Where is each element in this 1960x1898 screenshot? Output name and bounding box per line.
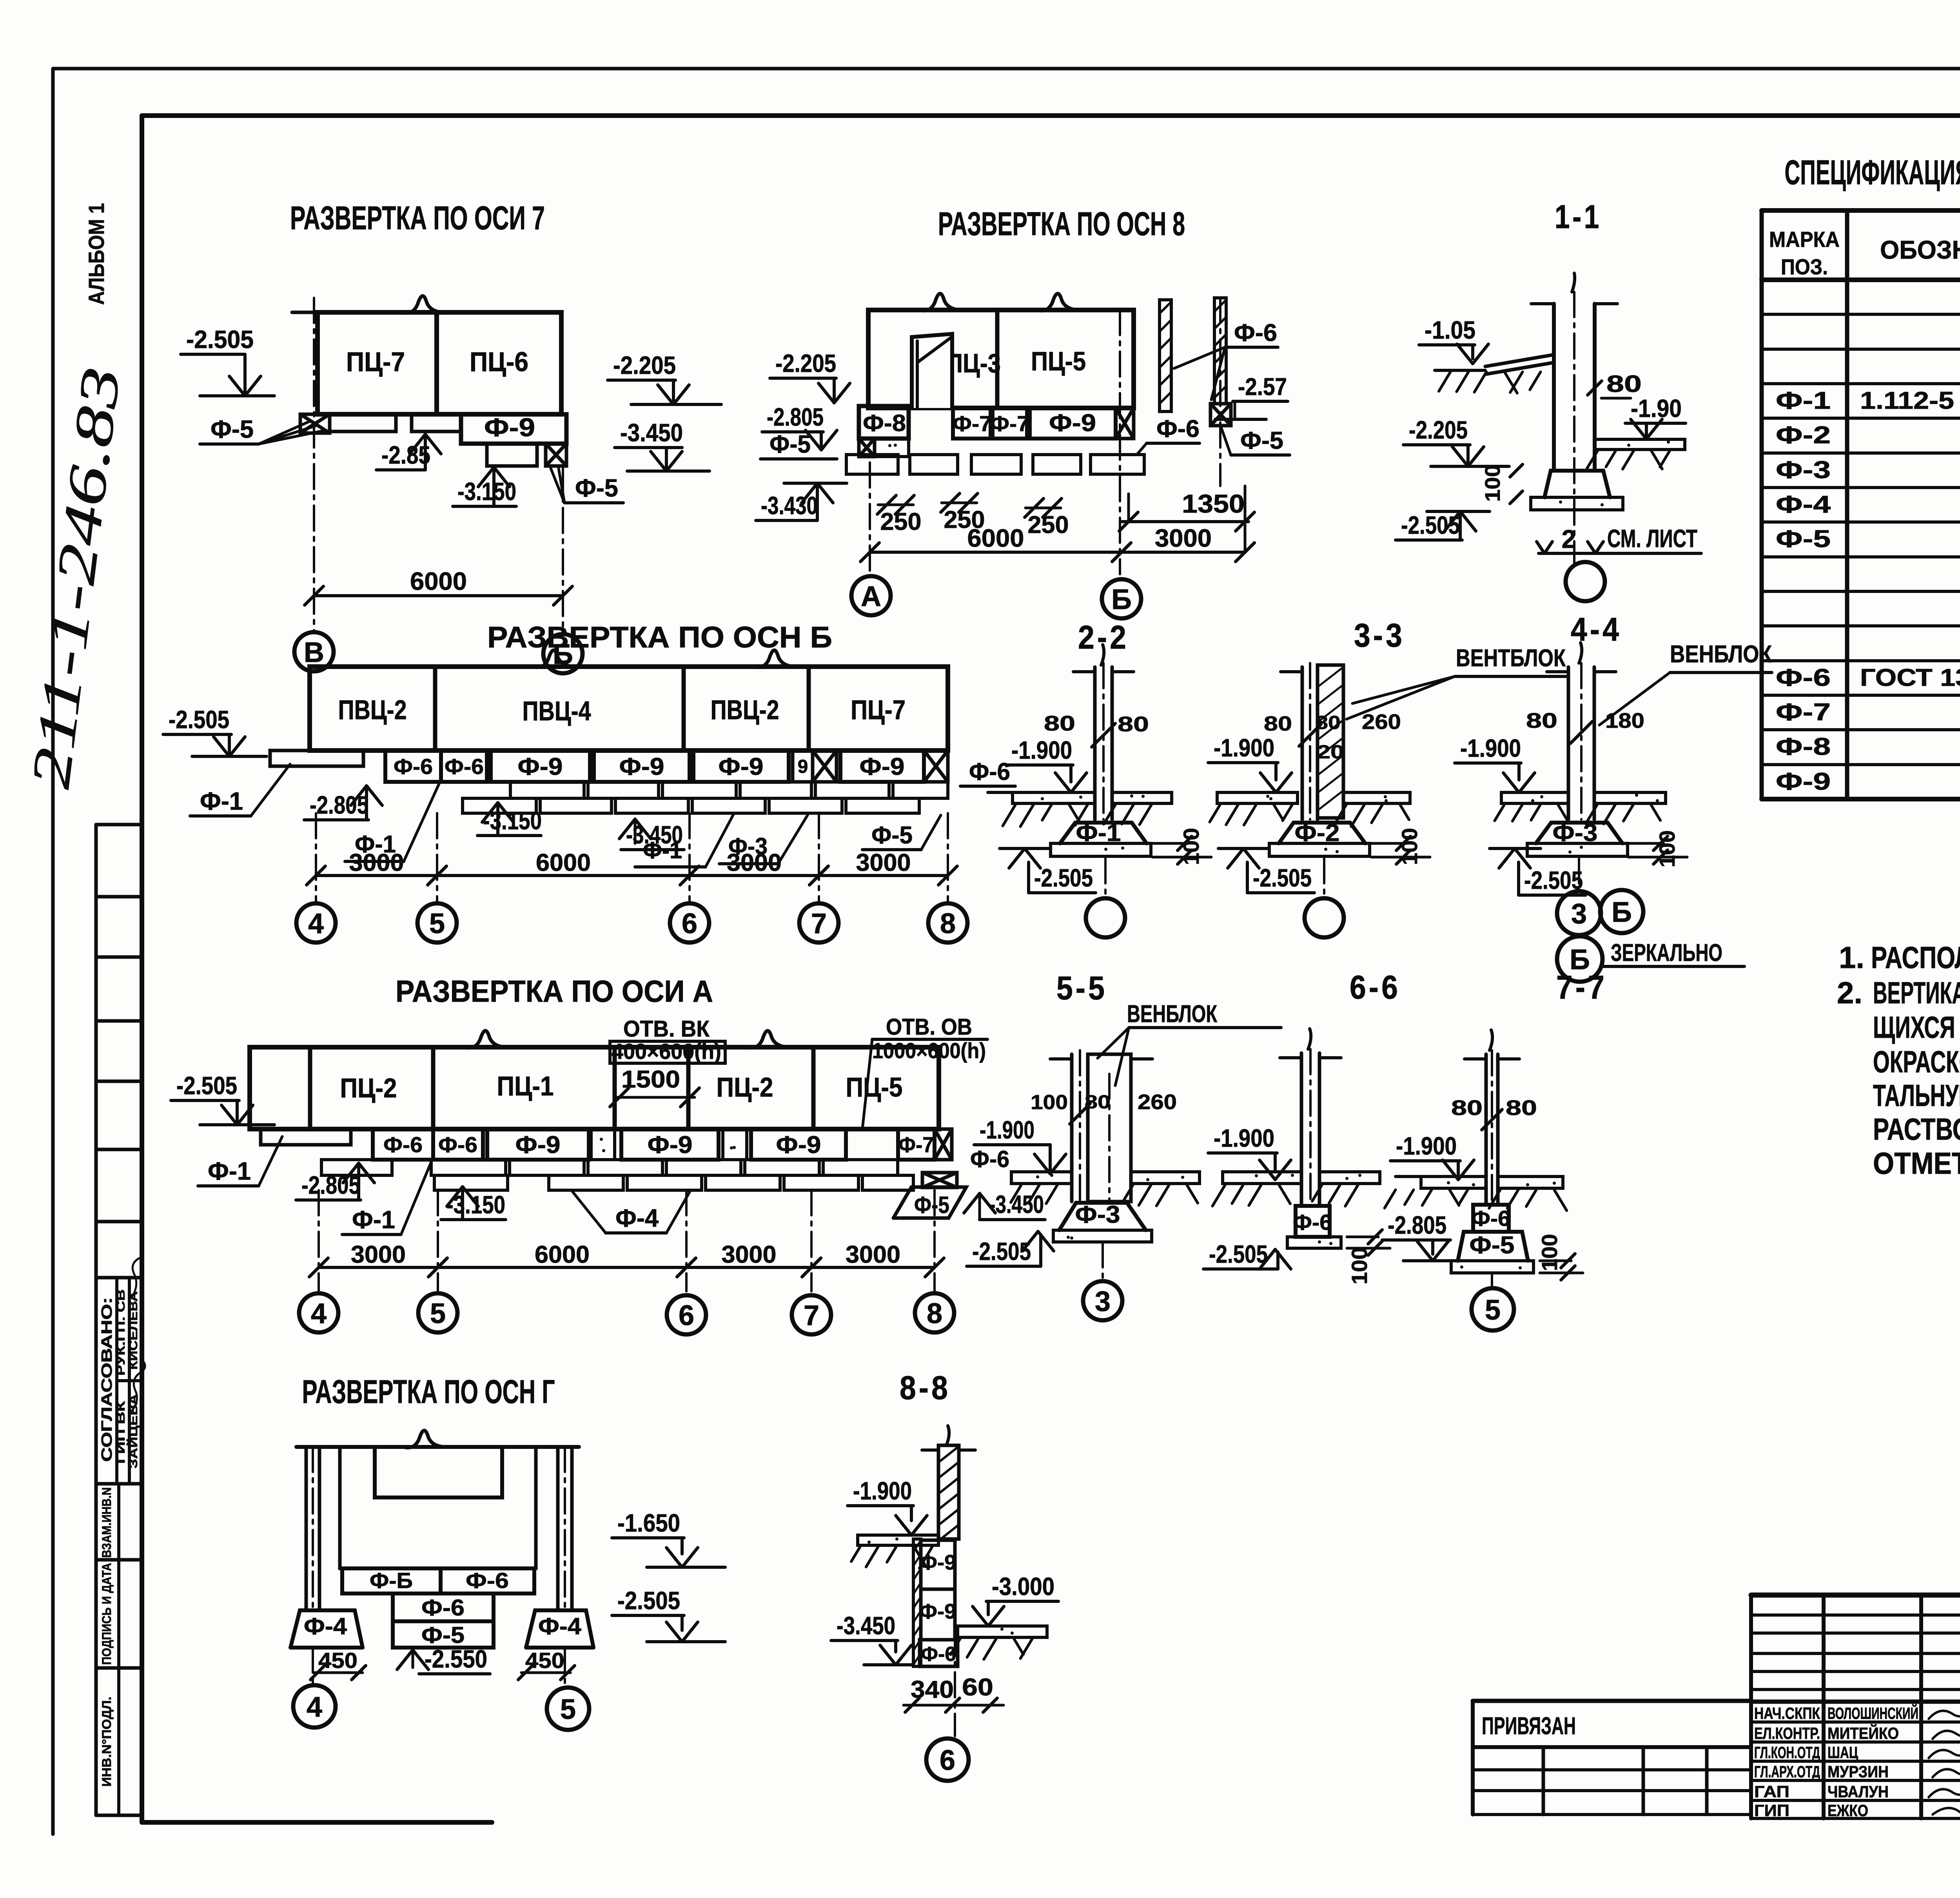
svg-text:6: 6 [940, 1745, 955, 1776]
svg-text:6: 6 [679, 1300, 694, 1331]
svg-text:РАЗВЕРТКА ПО ОСИ А: РАЗВЕРТКА ПО ОСИ А [396, 974, 713, 1008]
D2 X-box under ф-8 [859, 439, 875, 457]
svg-text:ВЕНТБЛОК: ВЕНТБЛОК [1456, 645, 1566, 672]
svg-text:ОТВ. ВК: ОТВ. ВК [623, 1016, 710, 1042]
svg-text:Ф-9: Ф-9 [919, 1551, 956, 1574]
svg-text:3000: 3000 [1155, 524, 1212, 552]
S22 footing [1060, 823, 1147, 843]
svg-text:20: 20 [1317, 742, 1344, 763]
D1 lower plate [487, 444, 537, 466]
svg-text:Ф-9: Ф-9 [1776, 768, 1831, 795]
svg-text:-2.85: -2.85 [381, 441, 430, 469]
svg-text:1000×600(h): 1000×600(h) [872, 1038, 986, 1063]
svg-text:Ф-4: Ф-4 [538, 1613, 582, 1639]
S88 stack hatched edge [913, 1539, 921, 1666]
svg-text:РАСПОЛОЖЕНИЕ СЕЧЕНИЙ СМ. ЛИС: РАСПОЛОЖЕНИЕ СЕЧЕНИЙ СМ. ЛИСТ 5 [1871, 940, 1960, 975]
svg-text:ПЦ-2: ПЦ-2 [717, 1072, 773, 1102]
svg-text:80: 80 [1606, 371, 1642, 397]
svg-text:3000: 3000 [351, 1241, 406, 1268]
S55 axis circle 3 [1102, 1242, 1104, 1281]
S77 wall [1485, 1054, 1488, 1205]
svg-text:7: 7 [811, 908, 827, 939]
svg-text:Ф-4: Ф-4 [304, 1613, 347, 1639]
title block signatures [1929, 1704, 1960, 1719]
S77 slab [1451, 1261, 1534, 1273]
signature squiggle [132, 1258, 140, 1297]
S77 ground band [1421, 1177, 1486, 1188]
svg-text:РАЗВЕРТКА ПО ОСН Б: РАЗВЕРТКА ПО ОСН Б [487, 621, 832, 654]
svg-text:Ф-9: Ф-9 [518, 753, 563, 780]
svg-text:Ф-9: Ф-9 [860, 753, 905, 780]
svg-text:80: 80 [1264, 712, 1292, 735]
svg-text:250: 250 [880, 508, 922, 535]
svg-text:Ф-6: Ф-6 [394, 754, 433, 779]
S77 block ф-5 [1458, 1232, 1528, 1261]
svg-text:6000: 6000 [536, 849, 591, 876]
svg-text:ПОЗ.: ПОЗ. [1781, 254, 1828, 279]
D4 ф-5 wedge block [893, 1187, 966, 1218]
S11 ground right [1595, 439, 1685, 450]
D4 blocks row [250, 1047, 939, 1129]
svg-text:Ф-3: Ф-3 [1776, 457, 1831, 484]
svg-text:Ф-6: Ф-6 [1471, 1206, 1510, 1231]
svg-text:ОТМЕТКАХ -2.205, -3.150: ОТМЕТКАХ -2.205, -3.150 [1873, 1146, 1960, 1180]
svg-text:60: 60 [962, 1674, 993, 1701]
svg-text:Ф-8: Ф-8 [1776, 733, 1831, 760]
svg-text:Ф-6: Ф-6 [1293, 1210, 1332, 1235]
svg-text:8: 8 [927, 1298, 942, 1329]
title block: project name cell [1751, 1700, 1960, 1704]
svg-text:-2.57: -2.57 [1238, 373, 1287, 401]
S88 block ф-6 [920, 1640, 958, 1666]
svg-text:80: 80 [1316, 712, 1341, 733]
S88 block ф-9 (1) [921, 1540, 955, 1589]
D1 strip plate 2 [412, 414, 461, 431]
S44 axis circles 3 Б Б [1578, 858, 1580, 892]
svg-text:7-7: 7-7 [1556, 969, 1607, 1006]
D4 lower X-box [922, 1173, 957, 1187]
svg-text:ВЕНБЛОК: ВЕНБЛОК [1670, 641, 1772, 668]
svg-text:ЗАЙЦЕВА: ЗАЙЦЕВА [127, 1394, 140, 1468]
DГ left wall [305, 1447, 308, 1610]
svg-text:Ф-5: Ф-5 [421, 1622, 465, 1648]
svg-text:Ф-9: Ф-9 [919, 1600, 956, 1623]
svg-text:РАЗВЕРТКА ПО ОСИ 7: РАЗВЕРТКА ПО ОСИ 7 [290, 199, 545, 236]
svg-text:ПЦ-2: ПЦ-2 [340, 1073, 397, 1103]
D1 axis circle В [294, 632, 334, 671]
svg-text:ВЗАМ.ИНВ.N: ВЗАМ.ИНВ.N [100, 1487, 114, 1558]
D1 block пц-6 [437, 312, 561, 414]
svg-text:1.: 1. [1839, 940, 1864, 975]
svg-text:ПЦ-6: ПЦ-6 [470, 346, 528, 377]
svg-text:6: 6 [682, 908, 697, 939]
svg-text:ПЦ-1: ПЦ-1 [497, 1071, 554, 1101]
svg-text:Ф-9: Ф-9 [1049, 410, 1096, 437]
D4 strip blocks [373, 1129, 433, 1160]
svg-text:-1.900: -1.900 [853, 1477, 912, 1505]
svg-text:ШАЦ: ШАЦ [1828, 1743, 1858, 1762]
svg-text:-2.505: -2.505 [1209, 1240, 1268, 1268]
D2 blocks пц-3 пц-5 outer [868, 310, 1134, 408]
svg-text:ИНВ.N°ПОДЛ.: ИНВ.N°ПОДЛ. [100, 1697, 114, 1787]
svg-text:-2.550: -2.550 [425, 1645, 487, 1673]
svg-text:ТАЛЬНУЮ ГИДРОИЗОЛЯЦИЮ ВЫПОЛН: ТАЛЬНУЮ ГИДРОИЗОЛЯЦИЮ ВЫПОЛНЯТЬ ЦЕМЕНТНЫ… [1873, 1078, 1960, 1113]
svg-text:РУК.ГП. СВ: РУК.ГП. СВ [114, 1289, 127, 1376]
svg-text:2: 2 [1562, 524, 1576, 553]
svg-text:-2.805: -2.805 [301, 1171, 360, 1199]
svg-text:Ф-6: Ф-6 [445, 754, 484, 779]
svg-text:ПЦ-5: ПЦ-5 [846, 1072, 903, 1102]
S55 ground band [1011, 1172, 1072, 1184]
svg-text:6000: 6000 [967, 524, 1024, 552]
D2 X-box right [1116, 408, 1134, 439]
svg-text:5: 5 [560, 1694, 576, 1725]
svg-text:-2.205: -2.205 [1409, 416, 1468, 444]
svg-text:Ф-5: Ф-5 [211, 415, 254, 443]
svg-text:-2.505: -2.505 [1034, 864, 1093, 892]
DГ left footing ф-4 [290, 1610, 363, 1648]
svg-text:Ф-4: Ф-4 [1776, 491, 1831, 518]
svg-text:НАЧ.СКПК: НАЧ.СКПК [1754, 1704, 1820, 1722]
svg-text:Ф-9: Ф-9 [719, 753, 764, 780]
S44 footing [1536, 823, 1622, 843]
svg-text:3000: 3000 [349, 849, 404, 876]
DГ axis circles [312, 1648, 314, 1685]
svg-text:ПВЦ-2: ПВЦ-2 [711, 694, 779, 725]
D2 plates row [846, 455, 898, 474]
svg-text:4-4: 4-4 [1571, 611, 1622, 648]
svg-text:КИСЕЛЕВА: КИСЕЛЕВА [127, 1291, 140, 1370]
svg-text:ГИП ВК: ГИП ВК [114, 1401, 127, 1464]
svg-text:3: 3 [1095, 1286, 1111, 1317]
svg-text:Б: Б [1111, 584, 1132, 615]
svg-text:Ф-7: Ф-7 [953, 411, 992, 436]
svg-text:Ф-6: Ф-6 [1234, 319, 1277, 346]
svg-text:3-3: 3-3 [1354, 617, 1405, 654]
svg-text:3000: 3000 [846, 1241, 900, 1268]
svg-text:ВЕРТИКАЛЬНУЮ ГИДРОИЗОЛЯЦИЮ В: ВЕРТИКАЛЬНУЮ ГИДРОИЗОЛЯЦИЮ ВСЕХ СОПРИКАС… [1873, 975, 1960, 1010]
svg-text:100: 100 [1537, 1234, 1562, 1271]
svg-text:ЕЖКО: ЕЖКО [1828, 1801, 1868, 1820]
svg-text:РАЗВЕРТКА ПО ОСН Г: РАЗВЕРТКА ПО ОСН Г [302, 1373, 555, 1410]
D2 axis line А [869, 462, 871, 572]
S11 footing trapezoid [1544, 471, 1610, 497]
svg-text:-1.900: -1.900 [1214, 1124, 1274, 1152]
D1 axis line В [313, 298, 315, 631]
S11 left slab [1485, 355, 1554, 366]
svg-text:-1.650: -1.650 [617, 1509, 680, 1537]
DГ top line [296, 1445, 579, 1449]
svg-text:-2.505: -2.505 [617, 1586, 680, 1615]
S11 wall [1552, 304, 1556, 469]
svg-text:СМ. ЛИСТ: СМ. ЛИСТ [1607, 524, 1697, 553]
S22 wall [1093, 667, 1097, 819]
svg-text:Ф-6: Ф-6 [383, 1132, 423, 1157]
svg-text:ЧВАЛУН: ЧВАЛУН [1828, 1782, 1889, 1801]
S22 axis circle [1104, 858, 1107, 897]
D2 axis line б [1119, 310, 1121, 574]
D3 plates rows [510, 782, 584, 798]
D1 top edge extension + break [292, 311, 318, 314]
svg-text:-1.05: -1.05 [1425, 316, 1475, 344]
svg-text:Ф-5: Ф-5 [871, 822, 913, 849]
D1 lower X-box [546, 444, 566, 466]
approval block СОГЛАСОВАНО [115, 1278, 118, 1484]
svg-text:9: 9 [798, 756, 808, 777]
svg-text:ПЦ-5: ПЦ-5 [1031, 346, 1086, 376]
svg-text:8-8: 8-8 [900, 1369, 951, 1406]
svg-text:ГИП: ГИП [1754, 1801, 1789, 1820]
DГ right wall [534, 1447, 538, 1568]
svg-text:Ф-1: Ф-1 [643, 837, 682, 863]
svg-text:250: 250 [1028, 511, 1069, 538]
svg-text:ЩИХСЯ С ГРУНТОМ ПОВЕРХНОСТЕ: ЩИХСЯ С ГРУНТОМ ПОВЕРХНОСТЕЙ ВЫПОЛНЯТЬ [1873, 1010, 1960, 1044]
S77 axis circle 5 [1491, 1274, 1493, 1289]
svg-text:А: А [861, 581, 881, 612]
svg-text:Ф-1: Ф-1 [352, 1206, 395, 1234]
svg-text:Ф-1: Ф-1 [208, 1157, 251, 1185]
svg-text:Ф-Б: Ф-Б [370, 1568, 413, 1593]
svg-text:-1.900: -1.900 [980, 1116, 1034, 1144]
S88 block ф-9 (2) [921, 1589, 955, 1640]
svg-text:Ф-7: Ф-7 [898, 1132, 934, 1157]
svg-text:Б: Б [1612, 897, 1632, 928]
svg-text:Ф-8: Ф-8 [863, 410, 906, 436]
D2 block ф-9 [1030, 408, 1116, 439]
svg-text:-1.900: -1.900 [1396, 1132, 1457, 1160]
svg-text:РАЗВЕРТКА ПО ОСН 8: РАЗВЕРТКА ПО ОСН 8 [938, 205, 1185, 242]
svg-text:-2.805: -2.805 [1388, 1211, 1446, 1239]
svg-text:4: 4 [311, 1298, 327, 1329]
S66 block ф-6 [1296, 1206, 1330, 1237]
D3 blocks row [310, 667, 948, 750]
svg-text:4: 4 [308, 908, 324, 939]
title block: staff table [1749, 1595, 1753, 1818]
svg-text:4: 4 [307, 1691, 322, 1723]
D2 axis circle б [1102, 579, 1141, 618]
svg-text:ВЕНБЛОК: ВЕНБЛОК [1127, 1001, 1217, 1028]
svg-text:ОБОЗНАЧЕНИЕ: ОБОЗНАЧЕНИЕ [1880, 235, 1960, 264]
svg-text:-2.505: -2.505 [186, 325, 254, 353]
D2 block ф-8 [859, 406, 909, 439]
svg-text:Ф-1: Ф-1 [200, 787, 243, 815]
svg-text:-1.900: -1.900 [1011, 736, 1072, 764]
svg-text:ГЛ.АРХ.ОТД: ГЛ.АРХ.ОТД [1754, 1762, 1820, 1781]
svg-text:ПВЦ-4: ПВЦ-4 [523, 696, 591, 726]
D3 dims [316, 874, 437, 877]
svg-text:-2.505: -2.505 [1253, 864, 1312, 892]
svg-text:ГАП: ГАП [1754, 1782, 1789, 1801]
svg-text:1350: 1350 [1182, 489, 1245, 518]
svg-text:Ф-6: Ф-6 [1156, 415, 1200, 442]
S33 axis circle [1323, 858, 1325, 897]
D3 axis drop lines [315, 813, 317, 901]
S55 wall with vent [1070, 1054, 1074, 1202]
svg-text:1500: 1500 [621, 1066, 680, 1093]
sheet outer border [53, 67, 1960, 71]
svg-text:-1.900: -1.900 [1214, 734, 1274, 762]
svg-text:450: 450 [318, 1648, 358, 1673]
spec table grid [1760, 210, 1764, 799]
D4 left slab [261, 1129, 351, 1145]
svg-text:ПВЦ-2: ПВЦ-2 [338, 694, 407, 725]
D4 axis circles [299, 1293, 338, 1332]
sheet inner frame [142, 113, 1960, 118]
D4 dims [319, 1266, 438, 1269]
svg-text:3000: 3000 [856, 849, 911, 876]
svg-text:МИТЕЙКО: МИТЕЙКО [1828, 1724, 1899, 1742]
D1 block пц-7 [318, 312, 437, 414]
svg-text:6000: 6000 [535, 1241, 590, 1268]
D4 axis drop lines [318, 1190, 320, 1291]
svg-text:Ф-2: Ф-2 [1776, 422, 1831, 449]
svg-text:Ф-6: Ф-6 [1776, 664, 1831, 691]
D1 axis circle Б [543, 634, 583, 673]
S22 ground band [1013, 792, 1095, 803]
svg-text:ПОДПИСЬ И ДАТА: ПОДПИСЬ И ДАТА [100, 1563, 114, 1665]
svg-text:Ф-9: Ф-9 [776, 1131, 821, 1158]
svg-text:80: 80 [1085, 1092, 1111, 1113]
svg-text:-1.90: -1.90 [1631, 394, 1682, 422]
svg-text:Ф-6: Ф-6 [421, 1595, 465, 1621]
D1 dim 6000 [314, 594, 563, 597]
svg-text:1-1: 1-1 [1555, 198, 1602, 235]
D2 axis circle А [851, 576, 891, 615]
svg-text:3000: 3000 [727, 849, 782, 876]
svg-text:Ф-5: Ф-5 [914, 1192, 949, 1218]
svg-text:100: 100 [1347, 1247, 1372, 1285]
svg-text:8: 8 [940, 908, 956, 939]
svg-text:80: 80 [1044, 712, 1075, 735]
svg-text:Ф-7: Ф-7 [990, 411, 1029, 436]
D2 dim 3000 [1122, 551, 1245, 554]
D3 strip blocks [385, 750, 441, 782]
svg-text:80: 80 [1526, 709, 1557, 732]
svg-text:3: 3 [1571, 898, 1587, 930]
D1 block ф-9 [461, 414, 566, 444]
svg-text:-3.450: -3.450 [620, 419, 683, 447]
svg-text:5: 5 [430, 1298, 446, 1329]
svg-text:АЛЬБОМ 1: АЛЬБОМ 1 [84, 203, 109, 305]
svg-text:80: 80 [1506, 1096, 1537, 1120]
svg-text:РАСТВОРОМ СОСТАВА 1:2 ТОЛЩИ: РАСТВОРОМ СОСТАВА 1:2 ТОЛЩИНОЙ 20ММ НА [1873, 1112, 1960, 1146]
D2 block ф-7 (2) [993, 408, 1027, 439]
svg-text:-3.000: -3.000 [992, 1572, 1054, 1601]
svg-text:6-6: 6-6 [1350, 969, 1401, 1006]
svg-text:ОТВ. ОВ: ОТВ. ОВ [886, 1014, 972, 1040]
svg-text:180: 180 [1605, 709, 1644, 732]
svg-text:Ф-9: Ф-9 [515, 1131, 561, 1158]
S88 axis circle 6 [926, 1738, 969, 1781]
S11 axis circle (empty) [1566, 562, 1605, 601]
svg-text:Ф-6: Ф-6 [969, 758, 1010, 785]
DГ center stack ф-6 ф-5 [393, 1593, 494, 1621]
DГ band blocks ф-б ф-6 [340, 1566, 536, 1570]
svg-text:-2.205: -2.205 [775, 349, 836, 377]
svg-text:80: 80 [1118, 712, 1149, 736]
svg-text:ГОСТ 13579-78: ГОСТ 13579-78 [1860, 664, 1960, 691]
stamp ВЗАМ.ИНВ.№ [117, 1484, 120, 1815]
svg-text:Ф-3: Ф-3 [1075, 1201, 1120, 1228]
S66 slab [1287, 1237, 1341, 1248]
svg-text:Ф-9: Ф-9 [619, 753, 664, 780]
detail hatched wall stub left [1160, 300, 1171, 412]
D2 block ф-7 (1) [953, 408, 991, 439]
svg-text:3000: 3000 [722, 1241, 777, 1268]
S44 wall [1567, 667, 1570, 819]
svg-text:МУРЗИН: МУРЗИН [1828, 1762, 1889, 1781]
S88 ground left [858, 1535, 938, 1545]
svg-text:2.: 2. [1837, 975, 1862, 1010]
S11 ground hatch left [1439, 372, 1450, 391]
D1 X-box block [300, 414, 330, 433]
svg-text:-3.450: -3.450 [837, 1612, 895, 1640]
svg-text:7: 7 [804, 1300, 819, 1331]
D1 strip plate 1 [330, 414, 396, 431]
S66 ground band [1223, 1172, 1301, 1184]
svg-text:Ф-9: Ф-9 [648, 1131, 693, 1158]
svg-text:-2.505: -2.505 [176, 1071, 237, 1100]
svg-text:ВОЛОШИНСКИЙ: ВОЛОШИНСКИЙ [1828, 1704, 1918, 1722]
svg-text:Ф-9: Ф-9 [484, 413, 535, 442]
svg-text:Ф-4: Ф-4 [615, 1204, 659, 1232]
svg-text:-2.505: -2.505 [169, 705, 229, 734]
svg-text:Ф-1: Ф-1 [1776, 387, 1831, 414]
D1 axis line Б [562, 466, 564, 632]
привязан table [1473, 1699, 1751, 1703]
svg-text:Ф-6: Ф-6 [970, 1146, 1009, 1172]
S33 footing [1279, 823, 1365, 843]
svg-text:СПЕЦИФИКАЦИЯ К СХЕМАМ РАСПОЛО: СПЕЦИФИКАЦИЯ К СХЕМАМ РАСПОЛОЖЕНИЯ ФУНДА… [1785, 153, 1960, 192]
svg-text:100: 100 [1481, 465, 1504, 502]
svg-text:Ф-6: Ф-6 [466, 1568, 509, 1593]
svg-text:ЕЛ.КОНТР.: ЕЛ.КОНТР. [1754, 1724, 1820, 1742]
S11 footing slab [1531, 497, 1623, 510]
svg-text:ОКРАСКОЙ ГОРЯЧИМ БИТУМОМ ЗА: ОКРАСКОЙ ГОРЯЧИМ БИТУМОМ ЗА 2 РАЗА, ГОРИ… [1873, 1044, 1960, 1079]
S77 block ф-6 [1473, 1205, 1509, 1232]
svg-text:-1.900: -1.900 [1460, 734, 1521, 762]
svg-text:5: 5 [1485, 1294, 1501, 1326]
svg-text:Ф-5: Ф-5 [1240, 427, 1283, 454]
detail X-box [1210, 404, 1231, 426]
svg-text:ПРИВЯЗАН: ПРИВЯЗАН [1482, 1713, 1576, 1740]
DГ middle recess [375, 1447, 502, 1497]
svg-text:Ф-5: Ф-5 [1470, 1232, 1515, 1259]
svg-text:6000: 6000 [410, 567, 467, 595]
svg-text:5-5: 5-5 [1056, 970, 1107, 1006]
svg-text:ПЦ-7: ПЦ-7 [851, 694, 906, 725]
S88 hatched wall [938, 1445, 959, 1539]
svg-text:Ф-5: Ф-5 [575, 474, 618, 502]
S66 wall [1300, 1053, 1303, 1206]
svg-text:1.112-5: 1.112-5 [1860, 387, 1954, 414]
detail hatched wall stub right [1214, 298, 1226, 404]
svg-text:260: 260 [1138, 1090, 1177, 1114]
svg-text:Ф-5: Ф-5 [1776, 526, 1831, 553]
svg-text:СОГЛАСОВАНО:: СОГЛАСОВАНО: [99, 1297, 115, 1462]
S33 wall with vent [1301, 667, 1304, 819]
svg-text:ЗЕРКАЛЬНО: ЗЕРКАЛЬНО [1611, 939, 1722, 966]
left stamp column [94, 825, 98, 1815]
D4 plates rows [321, 1160, 392, 1175]
svg-text:В: В [304, 637, 324, 668]
svg-text:Ф-6: Ф-6 [438, 1132, 477, 1157]
svg-text:ГЛ.КОН.ОТД: ГЛ.КОН.ОТД [1754, 1743, 1820, 1762]
S88 ground right [958, 1626, 1047, 1637]
svg-text:-2.205: -2.205 [613, 351, 676, 379]
svg-text:5: 5 [429, 908, 445, 939]
S33 ground band [1217, 792, 1298, 803]
